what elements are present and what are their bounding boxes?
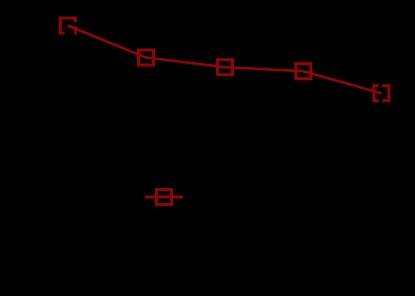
marker square point 5 xyxy=(374,86,389,101)
black cutout over point 1 right edge xyxy=(73,22,78,26)
faint ray s1 at point 1 xyxy=(66,27,67,34)
lone errorbar square point 6 xyxy=(157,190,172,205)
marker square point 3 xyxy=(218,60,233,75)
marker square point 1 xyxy=(60,18,75,33)
marker square point 4 xyxy=(296,64,311,79)
faint ray s2 at point 1 xyxy=(69,27,70,34)
black cutout over point 5 (vertical bar) xyxy=(379,83,383,106)
data polyline xyxy=(68,26,382,94)
black cutout over point 1 bottom edge xyxy=(65,31,75,35)
horizontal error bar of point 6 xyxy=(145,195,183,198)
marker square point 2 xyxy=(139,50,154,65)
faint ray sw at point 1 xyxy=(62,26,68,32)
